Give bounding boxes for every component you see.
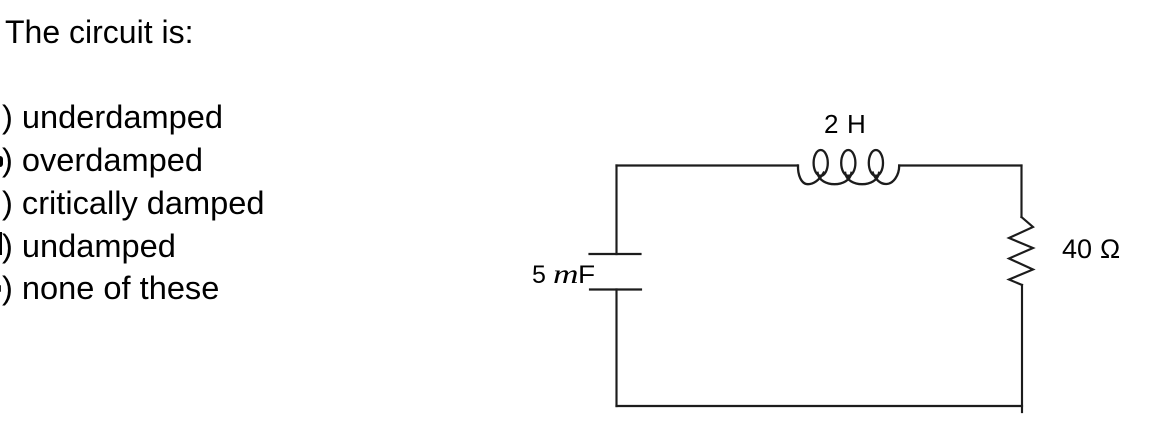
inductor L1 exit arc	[873, 166, 899, 185]
option b) overdamped	[2, 144, 203, 177]
capacitor C1 bottom plate	[590, 288, 641, 290]
label 40 ohm (resistor value)	[1062, 236, 1120, 263]
inductor L1 entry arc	[798, 150, 899, 184]
option e) none of these	[2, 272, 219, 305]
wire: capacitor bottom plate to bottom-left corner	[615, 290, 617, 407]
inductor L1 loop 3	[869, 150, 883, 176]
partial letter sliver of b (line 2)	[0, 156, 3, 167]
partial letter sliver of e (line 5)	[0, 285, 1, 292]
wire: top horizontal left segment (top-left corner to inductor)	[617, 164, 798, 166]
inductor L1 loop 2	[841, 150, 855, 176]
inductor crossing junction 3	[874, 175, 877, 178]
capacitor C1 top plate	[590, 253, 641, 255]
option c) critically damped	[2, 187, 265, 220]
option a) underdamped	[2, 101, 223, 134]
label 5 mF (capacitor value)	[532, 261, 593, 288]
inductor crossing junction 2	[847, 175, 850, 178]
inductor L1 loop 1	[814, 150, 828, 176]
label 2 H (inductor value)	[824, 111, 866, 137]
inductor L1 bowl arc 1-2	[818, 173, 852, 184]
wire: top horizontal right segment	[899, 164, 1021, 166]
resistor R1 zigzag	[1009, 217, 1033, 285]
partial letter sliver of d (line 4)	[0, 232, 2, 255]
option d) undamped	[2, 230, 176, 263]
question text: The circuit is:	[5, 16, 193, 48]
wire: bottom horizontal	[617, 405, 1023, 407]
wire: right vertical lower (resistor to bottom, with tail)	[1021, 285, 1023, 412]
inductor L1 bowl arc 2-3	[845, 173, 879, 184]
wire: right vertical upper (corner to resistor)	[1020, 166, 1022, 218]
wire: left vertical upper (top-left corner down to capacitor top plate)	[615, 166, 617, 255]
inductor crossing junction 1	[819, 175, 822, 178]
